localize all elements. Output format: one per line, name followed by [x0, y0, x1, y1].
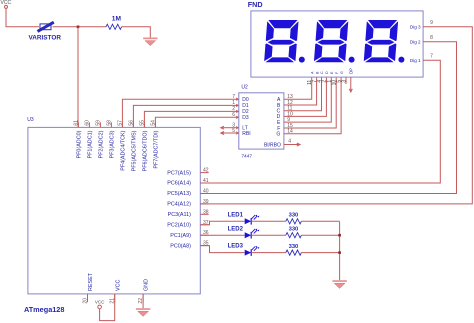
display pin 8 (unused segment stub): [341, 77, 347, 84]
pin 8 Dig 2 (display): [410, 35, 433, 45]
pin 11 C (U2 output): [277, 106, 293, 115]
power VCC (top-left): [1, 0, 12, 8]
svg-text:VARISTOR: VARISTOR: [29, 34, 62, 41]
svg-text:Dig 1: Dig 1: [410, 58, 421, 63]
wire Dig 3 to U3 pin 39: [200, 27, 472, 204]
svg-text:PF5(ADC5/TMS): PF5(ADC5/TMS): [132, 130, 138, 171]
power VCC (bottom): [95, 300, 105, 309]
wire U2 C to display segment C: [284, 77, 322, 111]
pin 42 PC7(A15) (U3 right): [167, 168, 209, 177]
ground (bottom): [136, 308, 150, 316]
node junction bus/LED3: [338, 251, 341, 254]
svg-text:Dig 3: Dig 3: [410, 25, 421, 30]
wire 1M to ground: [122, 27, 151, 38]
wire LED3 to resistor: [251, 252, 286, 254]
pin 22 GND (U3 bottom): [138, 279, 150, 304]
svg-text:LED2: LED2: [228, 226, 244, 232]
svg-text:PF2(ADC2): PF2(ADC2): [99, 130, 105, 158]
wire U2 A to display segment A: [284, 77, 312, 99]
IC U2 7447 body: [239, 93, 284, 149]
pin 40 PC5(A13) (U3 right): [167, 189, 209, 198]
svg-text:D3: D3: [242, 115, 249, 121]
svg-text:FND: FND: [248, 0, 263, 9]
svg-text:PC6(A14): PC6(A14): [167, 181, 191, 187]
wire resistor R3 to ground bus: [301, 252, 339, 254]
pin 4 BI/RBO (U2): [264, 139, 291, 149]
node junction varistor/1M/PF0: [77, 26, 80, 29]
7-segment digit 1: [264, 20, 299, 63]
wire LT stub (no connect): [221, 126, 236, 129]
svg-text:PC4(A12): PC4(A12): [167, 202, 191, 208]
LED1: [245, 215, 260, 225]
svg-text:6: 6: [232, 112, 235, 118]
svg-text:PC2(A10): PC2(A10): [167, 223, 191, 229]
svg-text:1M: 1M: [112, 16, 122, 23]
svg-text:G: G: [340, 71, 344, 74]
svg-text:7: 7: [232, 94, 235, 100]
pin 55 PF6(ADC6/TDO) (U3 top): [139, 120, 148, 172]
pin 54 PF7(ADC7/TDI) (U3 top): [150, 120, 159, 169]
wire resistor R2 to ground bus: [301, 234, 339, 236]
ground (LED bus): [332, 280, 346, 288]
svg-text:PF6(ADC6/TDO): PF6(ADC6/TDO): [143, 130, 149, 171]
pin 10 D (U2 output): [277, 111, 293, 120]
pin 3 LT (U2 input): [232, 123, 248, 132]
7-segment digit 3: [363, 20, 398, 63]
wire U3 PF4 to U2 D0: [122, 99, 236, 127]
pin 37 PC2(A10) (U3 right): [167, 220, 209, 229]
svg-text:PC0(A8): PC0(A8): [170, 243, 191, 249]
display pin 7 segment B: [312, 71, 319, 83]
svg-text:9: 9: [430, 20, 433, 26]
resistor 330 (R2): [286, 233, 302, 238]
svg-text:DP: DP: [348, 68, 353, 74]
display pin 5 segment G: [336, 71, 343, 83]
wire Dig 2 to U3 pin 40: [200, 42, 456, 194]
svg-text:20: 20: [82, 298, 88, 304]
svg-text:PC3(A11): PC3(A11): [168, 212, 191, 218]
pin 1 D1 (U2 input): [232, 100, 249, 109]
svg-text:7: 7: [430, 53, 433, 59]
pin 5 RBI (U2 input): [232, 128, 250, 137]
svg-text:RBI: RBI: [242, 131, 250, 137]
svg-text:U3: U3: [27, 117, 34, 123]
pin 59 PF2(ADC2) (U3 top): [95, 120, 104, 159]
display pin DP (no connect): [348, 68, 353, 92]
display FND body: [251, 11, 423, 77]
svg-text:59: 59: [95, 120, 101, 126]
svg-text:330: 330: [289, 227, 299, 233]
pin 2 D2 (U2 input): [232, 106, 249, 115]
wire LED ground bus: [339, 222, 341, 281]
svg-text:42: 42: [203, 168, 209, 174]
wire VCC to varistor: [6, 8, 39, 26]
pin 57 PF4(ADC4/TCK) (U3 top): [117, 120, 126, 171]
svg-text:4: 4: [288, 139, 291, 145]
wire U3 pin 35 to LED3: [200, 246, 244, 253]
pin 41 PC6(A14) (U3 right): [167, 178, 209, 187]
IC U3 ATmega128 body: [28, 127, 200, 294]
svg-text:GND: GND: [144, 279, 150, 291]
pin 14 G (U2 output): [276, 129, 293, 138]
pin 38 PC3(A11) (U3 right): [168, 209, 209, 218]
wire U3 PF6 to U2 D2: [144, 111, 236, 127]
pin 20 RESET (U3 bottom): [82, 272, 94, 303]
display pin 2 segment D: [322, 71, 329, 83]
svg-text:F: F: [335, 72, 339, 74]
wire U2 F to display segment F: [284, 77, 336, 128]
svg-text:Dig 2: Dig 2: [410, 40, 421, 45]
display pin 10 segment F: [332, 72, 339, 86]
resistor 330 (R3): [286, 250, 302, 255]
svg-text:G: G: [276, 132, 280, 138]
wire U3 pin 37 to LED1: [200, 221, 244, 225]
wire LED1 to resistor: [251, 220, 286, 222]
node junction bus/LED2: [338, 234, 341, 237]
svg-text:ATmega128: ATmega128: [24, 305, 64, 314]
pin 36 PC1(A9) (U3 right): [170, 230, 209, 239]
svg-text:PF1(ADC1): PF1(ADC1): [88, 130, 94, 158]
svg-text:38: 38: [203, 209, 209, 215]
resistor 1M: [106, 24, 122, 29]
pin 7 D0 (U2 input): [232, 94, 249, 103]
wire varistor to 1M: [53, 26, 107, 28]
display pin 11 segment A: [307, 71, 314, 85]
svg-text:61: 61: [73, 120, 79, 126]
pin 39 PC4(A12) (U3 right): [167, 199, 209, 208]
svg-text:PF4(ADC4/TCK): PF4(ADC4/TCK): [121, 130, 127, 170]
wire U2 B to display segment B: [284, 77, 317, 105]
svg-text:330: 330: [289, 213, 299, 219]
pin 9 E (U2 output): [277, 117, 290, 126]
wire U2 E to display segment E: [284, 77, 331, 122]
pin 58 PF3(ADC3) (U3 top): [106, 120, 115, 159]
pin 7 Dig 1 (display): [410, 53, 433, 63]
decimal point 1: [299, 57, 305, 63]
svg-text:LED1: LED1: [228, 212, 244, 218]
wire U3 pin 22 to ground: [142, 294, 144, 308]
wire resistor R1 to ground bus: [301, 220, 339, 222]
wire Dig 1 to U3 pin 41: [200, 60, 440, 183]
LED3: [245, 246, 260, 256]
pin 15 F (U2 output): [277, 123, 293, 132]
pin 13 A (U2 output): [277, 94, 293, 103]
svg-text:60: 60: [84, 120, 90, 126]
wire U2 G to display segment G: [284, 77, 341, 134]
pin 60 PF1(ADC1) (U3 top): [84, 120, 93, 159]
ground (top): [143, 38, 157, 46]
pin 61 PF0(ADC0) (U3 top): [73, 120, 82, 159]
resistor 330 (R1): [286, 219, 302, 224]
svg-text:PF3(ADC3): PF3(ADC3): [110, 130, 116, 158]
svg-text:BI/RBO: BI/RBO: [264, 142, 281, 148]
display pin 4 segment C: [317, 71, 324, 83]
svg-text:PC5(A13): PC5(A13): [167, 191, 191, 197]
svg-text:RESET: RESET: [88, 272, 94, 291]
svg-text:7447: 7447: [241, 154, 252, 160]
pin 35 PC0(A8) (U3 right): [170, 241, 209, 250]
wire junction to U3 pin 61: [77, 27, 79, 128]
wire U3 PF7 to U2 D3: [155, 117, 236, 127]
svg-text:PF0(ADC0): PF0(ADC0): [77, 130, 83, 158]
wire U3 PF5 to U2 D1: [133, 105, 236, 127]
svg-text:330: 330: [289, 244, 299, 250]
varistor RV1: [38, 22, 54, 31]
wire LED2 to resistor: [251, 234, 286, 236]
svg-text:8: 8: [430, 35, 433, 41]
pin 6 D3 (U2 input): [232, 112, 249, 121]
pin 56 PF5(ADC5/TMS) (U3 top): [128, 120, 137, 172]
svg-text:D0: D0: [242, 97, 249, 103]
svg-text:LED3: LED3: [228, 244, 244, 250]
pin 12 B (U2 output): [277, 100, 293, 109]
decimal point 2: [349, 57, 355, 63]
svg-text:U2: U2: [241, 85, 248, 91]
wire VCC to U3 pin 21: [100, 294, 115, 321]
wire BI/RBO stub (no connect): [284, 143, 300, 146]
svg-text:PC7(A15): PC7(A15): [167, 170, 191, 176]
svg-text:3: 3: [341, 80, 347, 83]
LED2: [245, 229, 260, 239]
svg-text:PC1(A9): PC1(A9): [170, 233, 191, 239]
svg-text:58: 58: [106, 120, 112, 126]
wire U3 pin 36 to LED2: [200, 234, 244, 236]
svg-text:PF7(ADC7/TDI): PF7(ADC7/TDI): [154, 130, 160, 168]
wire U2 D to display segment D: [284, 77, 327, 116]
wire RBI stub (no connect): [221, 132, 236, 135]
pin 9 Dig 3 (display): [410, 20, 433, 30]
pin 21 VCC (U3 bottom): [110, 280, 122, 304]
7-segment digit 2: [313, 20, 348, 63]
svg-text:VCC: VCC: [115, 280, 121, 291]
decimal point 3: [398, 57, 404, 63]
display pin 1 segment E: [327, 71, 334, 83]
svg-text:VCC: VCC: [95, 300, 105, 305]
